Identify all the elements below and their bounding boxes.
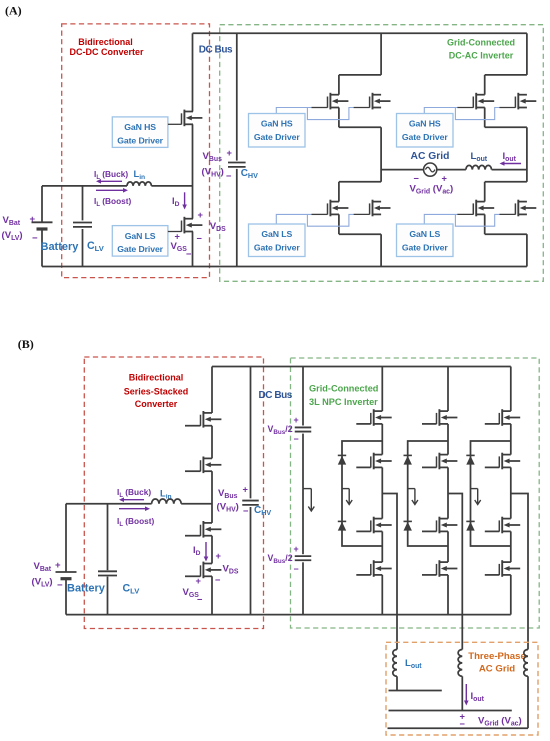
svg-text:IL (Boost): IL (Boost): [94, 196, 132, 208]
svg-text:IL (Buck): IL (Buck): [94, 169, 128, 181]
wire: grid bus phase 1: [389, 690, 442, 692]
svg-text:GaN HS: GaN HS: [409, 119, 441, 129]
svg-text:+: +: [216, 551, 222, 561]
svg-text:CHV: CHV: [241, 168, 258, 180]
capacitor VBus/2 upper: [295, 427, 312, 431]
transistor T4 leg 1: [356, 560, 391, 577]
neutral arrow leg 3: [471, 488, 478, 490]
svg-text:VBus/2: VBus/2: [268, 553, 293, 565]
gate driver: GaN LS Gate Driver (right leg): [397, 224, 454, 257]
wire: U1 to Q1 gate: [168, 123, 182, 125]
wire: inductor to stack node (B): [181, 503, 212, 505]
wire: series-stack rail (B): [211, 367, 213, 414]
svg-text:−: −: [243, 506, 249, 516]
svg-text:−: −: [460, 719, 466, 729]
gate driver: GaN HS Gate Driver (left leg): [249, 114, 306, 148]
svg-text:Battery: Battery: [67, 583, 106, 595]
enclosure: Bidirectional Series-Stacked Converter (red dashed): [84, 357, 263, 629]
svg-text:−: −: [57, 580, 63, 591]
neutral arrow (split-capacitor): [303, 488, 311, 490]
svg-text:VBus/2: VBus/2: [268, 424, 293, 436]
gate wiring: HS pair right leg: [424, 108, 515, 120]
svg-text:VBat: VBat: [3, 215, 21, 227]
svg-text:Gate Driver: Gate Driver: [117, 244, 163, 254]
transistor T4 leg 3: [485, 560, 520, 577]
gate wiring: HS pair left leg: [276, 108, 369, 120]
wire: grid bus phase 2: [389, 710, 512, 712]
svg-text:VBat: VBat: [34, 561, 52, 573]
wire: phase 2 to grid bus: [461, 676, 463, 710]
transistor T3 leg 2: [422, 517, 457, 534]
svg-text:Gate Driver: Gate Driver: [254, 243, 300, 253]
wire: phase 3 to grid bus: [527, 676, 529, 728]
enclosure: Grid-Connected 3L NPC Inverter (green dashed): [291, 358, 540, 628]
wire: DC-link rail (A): [236, 33, 238, 160]
transistor Q11 (stack top): [185, 411, 221, 428]
svg-text:Gate Driver: Gate Driver: [117, 136, 163, 146]
transistor T1 leg 3: [485, 409, 520, 426]
diode D1 leg 1: [338, 455, 346, 464]
svg-text:VGrid (Vac): VGrid (Vac): [478, 716, 522, 728]
transistor pair Q7,Q8 (GaN HS pair, right leg): [485, 75, 527, 127]
svg-text:IL (Buck): IL (Buck): [117, 487, 151, 499]
wire: AC output line (A): [381, 169, 424, 171]
svg-text:Gate Driver: Gate Driver: [402, 132, 448, 142]
battery B2: [65, 504, 67, 572]
wire: battery to inductor node (B): [66, 503, 152, 505]
transistor Q14 (stack bottom): [185, 562, 221, 579]
svg-text:−: −: [294, 564, 299, 574]
svg-text:+: +: [294, 544, 299, 554]
svg-text:VDS: VDS: [223, 564, 239, 576]
svg-text:CLV: CLV: [87, 240, 105, 253]
svg-text:Bidirectional: Bidirectional: [129, 373, 184, 383]
svg-text:Gate Driver: Gate Driver: [402, 243, 448, 253]
svg-text:GaN HS: GaN HS: [124, 122, 156, 132]
svg-text:ID: ID: [193, 545, 201, 557]
wire: split-capacitor rail (B): [302, 367, 304, 426]
svg-text:DC Bus: DC Bus: [259, 390, 293, 401]
svg-text:−: −: [414, 174, 420, 184]
wire: grid bus phase 3: [388, 727, 529, 729]
svg-text:(B): (B): [18, 337, 34, 351]
diode D2 leg 1: [338, 521, 346, 530]
svg-text:Grid-Connected: Grid-Connected: [309, 384, 378, 394]
diode D2 leg 3: [466, 521, 474, 530]
svg-text:+: +: [442, 174, 448, 184]
svg-text:Battery: Battery: [41, 241, 80, 253]
svg-text:Lout: Lout: [471, 151, 488, 163]
svg-text:−: −: [294, 434, 299, 444]
svg-text:VGrid (Vac): VGrid (Vac): [410, 184, 454, 196]
svg-text:DC-AC Inverter: DC-AC Inverter: [449, 50, 514, 60]
battery B1: [41, 186, 43, 222]
transistor T4 leg 2: [422, 560, 457, 577]
transistor T2 leg 3: [485, 453, 520, 470]
svg-text:−: −: [186, 249, 192, 259]
svg-text:+: +: [55, 560, 61, 571]
svg-text:+: +: [198, 210, 204, 220]
svg-text:(VHV): (VHV): [202, 167, 224, 179]
wire: DC-link rail (B): [250, 367, 252, 499]
svg-text:Bidirectional: Bidirectional: [78, 37, 133, 47]
wire: phase 1 to grid bus: [396, 676, 398, 690]
svg-text:Gate Driver: Gate Driver: [254, 132, 300, 142]
wire: battery to inductor node: [42, 185, 127, 187]
svg-text:VDS: VDS: [210, 221, 226, 233]
inductor Lout (A): [466, 165, 492, 169]
svg-text:Lout: Lout: [405, 658, 422, 670]
wire: NPC leg 3 rail: [510, 367, 512, 412]
transistor T3 leg 1: [356, 517, 391, 534]
transistor Q12: [185, 457, 221, 474]
svg-text:GaN LS: GaN LS: [261, 229, 292, 239]
neutral arrow leg 2: [408, 488, 415, 490]
gate driver U1: GaN HS Gate Driver (DC-DC): [112, 117, 168, 147]
svg-text:(A): (A): [5, 3, 22, 17]
transistor T1 leg 2: [422, 409, 457, 426]
wire: top rail (B): [212, 366, 511, 368]
svg-text:Three-Phase: Three-Phase: [468, 651, 526, 662]
gate driver U2: GaN LS Gate Driver (DC-DC): [112, 226, 168, 257]
transistor Q1 (GaN HS, DC-DC): [182, 110, 203, 127]
svg-text:+: +: [227, 148, 233, 158]
capacitor CHV (B): [242, 501, 259, 505]
svg-text:−: −: [197, 234, 203, 244]
gate wiring: LS pair left leg: [276, 214, 369, 226]
svg-text:VBus: VBus: [218, 488, 238, 500]
wire: bottom rail (B): [66, 614, 511, 616]
inductor Lin (A): [127, 182, 151, 186]
AC source VGrid: [424, 163, 437, 176]
svg-text:CHV: CHV: [254, 505, 271, 517]
svg-text:Converter: Converter: [135, 399, 178, 409]
svg-text:GaN LS: GaN LS: [409, 229, 440, 239]
gate wiring: LS pair right leg: [424, 214, 515, 226]
svg-text:AC Grid: AC Grid: [411, 151, 450, 162]
transistor Q2 (GaN LS, DC-DC): [182, 217, 203, 234]
svg-text:Lin: Lin: [134, 169, 146, 181]
gate driver: GaN HS Gate Driver (right leg): [397, 114, 454, 148]
svg-text:AC Grid: AC Grid: [479, 664, 515, 675]
inductor Lin (B): [152, 499, 182, 504]
svg-text:Iout: Iout: [503, 151, 517, 163]
svg-text:DC Bus: DC Bus: [199, 45, 233, 56]
svg-text:+: +: [175, 232, 181, 242]
wire: phase output leg 3: [511, 494, 528, 650]
svg-text:Grid-Connected: Grid-Connected: [447, 37, 515, 47]
svg-text:−: −: [32, 233, 38, 244]
transistor T2 leg 2: [422, 453, 457, 470]
svg-text:+: +: [294, 415, 299, 425]
inductor Lout phase 3: [524, 650, 528, 677]
transistor pair Q3,Q4 (GaN HS pair, left leg): [339, 75, 381, 127]
svg-text:−: −: [197, 595, 203, 605]
enclosure: Bidirectional DC-DC Converter (red dashed): [62, 24, 210, 278]
wire: inverter left leg rail: [380, 33, 382, 75]
gate driver: GaN LS Gate Driver (left leg): [249, 224, 306, 257]
svg-text:3L NPC Inverter: 3L NPC Inverter: [309, 397, 378, 407]
wire: NPC leg 1 rail: [381, 367, 383, 412]
inductor Lout phase 1: [393, 650, 397, 677]
transistor Q13: [185, 521, 221, 538]
wire: DC bus bottom rail (A): [42, 266, 527, 268]
svg-text:(VLV): (VLV): [32, 577, 53, 589]
svg-text:−: −: [215, 575, 221, 585]
diode D2 leg 2: [404, 521, 412, 530]
transistor T2 leg 1: [356, 453, 391, 470]
wire: U2 to Q2 gate: [168, 231, 182, 233]
svg-text:(VLV): (VLV): [2, 230, 23, 242]
svg-text:GaN LS: GaN LS: [125, 231, 156, 241]
neutral arrow leg 1: [342, 488, 349, 490]
wire: NPC leg 2 rail: [447, 367, 449, 412]
svg-text:DC-DC Converter: DC-DC Converter: [69, 47, 144, 57]
svg-text:ID: ID: [172, 196, 180, 208]
svg-text:Iout: Iout: [471, 691, 485, 703]
capacitor VBus/2 lower: [295, 556, 312, 560]
transistor T1 leg 1: [356, 409, 391, 426]
wire: clamp branch leg 2: [408, 441, 448, 546]
wire: clamp branch leg 1: [342, 441, 382, 546]
wire: phase output leg 1: [382, 494, 397, 650]
inductor Lout phase 2: [458, 650, 462, 677]
transistor T3 leg 3: [485, 517, 520, 534]
capacitor CLV (A): [82, 186, 84, 221]
capacitor CHV (A): [228, 163, 246, 167]
svg-text:+: +: [196, 576, 202, 586]
enclosure: Three-Phase AC Grid (orange dashed): [386, 642, 538, 735]
wire: inverter right leg rail: [526, 33, 528, 75]
wire: phase output leg 2: [448, 494, 462, 650]
wire: inductor to switch node (A): [151, 185, 192, 187]
enclosure: Grid-Connected DC-AC Inverter (green dashed): [220, 25, 544, 282]
transistor pair Q9,Q10 (GaN LS pair, right leg): [485, 182, 527, 234]
wire: clamp branch leg 3: [471, 441, 511, 546]
svg-text:(VHV): (VHV): [217, 502, 239, 514]
svg-text:IL (Boost): IL (Boost): [117, 516, 155, 528]
label: Iout with arrow (B): [464, 684, 469, 706]
svg-text:+: +: [243, 485, 249, 495]
svg-text:−: −: [226, 171, 232, 181]
wire: half-bridge rail (A): [192, 33, 194, 111]
svg-text:GaN HS: GaN HS: [261, 119, 293, 129]
capacitor CLV (B): [107, 504, 109, 571]
transistor pair Q5,Q6 (GaN LS pair, left leg): [339, 182, 381, 234]
diode D1 leg 2: [404, 455, 412, 464]
svg-text:CLV: CLV: [123, 583, 141, 596]
svg-text:VGS: VGS: [171, 241, 188, 253]
diode D1 leg 3: [466, 455, 474, 464]
svg-text:+: +: [30, 214, 36, 225]
svg-text:Series-Stacked: Series-Stacked: [124, 386, 189, 396]
wire: DC bus top rail (A): [193, 32, 527, 34]
